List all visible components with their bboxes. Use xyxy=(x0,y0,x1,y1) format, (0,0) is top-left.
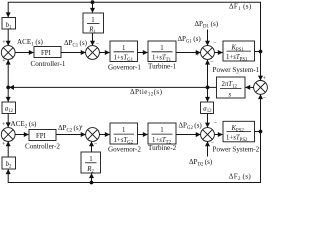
wire right bus up into tie summer bottom xyxy=(260,95,262,132)
svg-text:−: − xyxy=(96,41,100,47)
wire dPtie up into S3 bottom xyxy=(207,60,209,87)
summer S1 (ACE1) xyxy=(1,46,15,60)
node junction right bus row1 xyxy=(259,50,263,54)
wire dPtie down into a12 left xyxy=(7,87,9,101)
summer S6 (power system-2 input) xyxy=(201,128,215,142)
wire dPd2 disturbance into S6 xyxy=(207,142,209,157)
block FPI controller-1 xyxy=(34,47,61,58)
block Governor-1 xyxy=(110,41,138,63)
svg-text:s: s xyxy=(229,91,232,98)
wire b1 to summer S1 xyxy=(7,29,9,45)
svg-text:Controller-1: Controller-1 xyxy=(31,60,66,68)
wire bottom line up into 1/R2 xyxy=(91,174,93,183)
node junction dPtie at left column xyxy=(6,86,10,90)
wire tie summer to 2piT12 block xyxy=(246,86,254,88)
block Power System-2 xyxy=(223,121,255,143)
wire S2 to Governor-1 xyxy=(99,52,109,54)
node junction dPtie at middle column xyxy=(206,86,210,90)
wire a12 left down into S4 top xyxy=(7,114,9,127)
svg-text:1: 1 xyxy=(89,156,92,163)
block 2piT12/s xyxy=(217,77,246,98)
wire S5 to Governor-2 xyxy=(99,134,109,136)
wire 1/R2 up into S5 bottom xyxy=(91,142,93,152)
svg-text:FPI: FPI xyxy=(36,133,47,140)
svg-text:Governor-1: Governor-1 xyxy=(108,63,141,71)
wire dPtie line from 2piT12 across to left column xyxy=(9,86,216,88)
summer S3 (power system-1 input) xyxy=(201,46,215,60)
summer S7 (tie-line) xyxy=(254,81,268,95)
wire S6 to Power System-2 xyxy=(214,134,222,136)
svg-text:1: 1 xyxy=(91,17,94,24)
svg-text:Power System-1: Power System-1 xyxy=(213,66,260,74)
svg-text:Turbine-2: Turbine-2 xyxy=(148,144,177,152)
wire top feedback loop from Power System-1 output up and across to b1 xyxy=(8,2,260,51)
summer S2 (governor-1 input) xyxy=(86,46,100,60)
block Turbine-2 xyxy=(148,123,176,145)
wire right bus down into tie summer xyxy=(260,52,262,81)
svg-text:−: − xyxy=(210,59,214,65)
wire Turbine-2 to summer S6 xyxy=(176,134,200,136)
wire Governor-2 to Turbine-2 xyxy=(138,134,148,136)
wire S1 to FPI-1 xyxy=(15,52,34,54)
svg-text:−: − xyxy=(263,96,267,102)
summer S4 (ACE2) xyxy=(1,128,15,142)
wire top line down into 1/R1 xyxy=(92,2,94,12)
wire 1/R1 to summer S2 xyxy=(92,33,94,45)
wire S4 to FPI-2 xyxy=(15,134,29,136)
wire FPI-1 to summer S2 xyxy=(61,52,85,54)
block Turbine-1 xyxy=(148,41,176,63)
svg-text:1: 1 xyxy=(122,127,125,134)
wire b2 up into S4 bottom xyxy=(7,142,9,157)
svg-text:1: 1 xyxy=(122,45,125,52)
svg-text:Turbine-1: Turbine-1 xyxy=(148,62,177,70)
wire Governor-1 to Turbine-1 xyxy=(138,52,148,54)
wire bottom feedback loop from right bus to b2 xyxy=(8,132,260,183)
svg-text:1: 1 xyxy=(160,127,163,134)
svg-text:1: 1 xyxy=(160,45,163,52)
node junction on top wire above 1/R1 xyxy=(91,0,95,4)
wire Power System-1 output to right bus xyxy=(255,51,261,53)
svg-text:+: + xyxy=(195,134,199,140)
node junction right bus row2 xyxy=(259,130,263,134)
svg-text:−: − xyxy=(214,120,218,126)
block 1/R2 xyxy=(81,152,101,174)
wire Turbine-1 to summer S3 xyxy=(176,52,200,54)
block a12 left xyxy=(2,102,16,114)
wire Power System-2 output to right bus xyxy=(255,131,261,133)
svg-text:FPI: FPI xyxy=(41,50,52,57)
node junction bottom wire above 1/R2 xyxy=(90,181,94,185)
svg-text:+: + xyxy=(263,76,267,82)
wire FPI-2 to summer S5 xyxy=(56,134,85,136)
wire dPtie down into a12 middle xyxy=(207,87,209,101)
block 1/R1 xyxy=(83,13,104,35)
block a12 middle xyxy=(201,102,214,114)
wire a12 middle down into S6 top xyxy=(207,114,209,128)
summer S5 (governor-2 input) xyxy=(86,128,100,142)
wire dPtie up into S1 bottom xyxy=(7,60,9,87)
svg-text:+: + xyxy=(80,125,84,131)
block Power System-1 xyxy=(223,41,255,62)
wire S3 to Power System-1 xyxy=(214,52,222,54)
svg-text:Governor-2: Governor-2 xyxy=(108,145,141,153)
block b1 xyxy=(2,18,16,31)
block b2 xyxy=(2,157,16,169)
block FPI controller-2 xyxy=(29,130,56,141)
wire dPd1 disturbance into S3 xyxy=(207,30,209,46)
svg-text:Power System-2: Power System-2 xyxy=(213,146,260,154)
block Governor-2 xyxy=(110,123,138,145)
svg-text:Controller-2: Controller-2 xyxy=(25,143,60,151)
